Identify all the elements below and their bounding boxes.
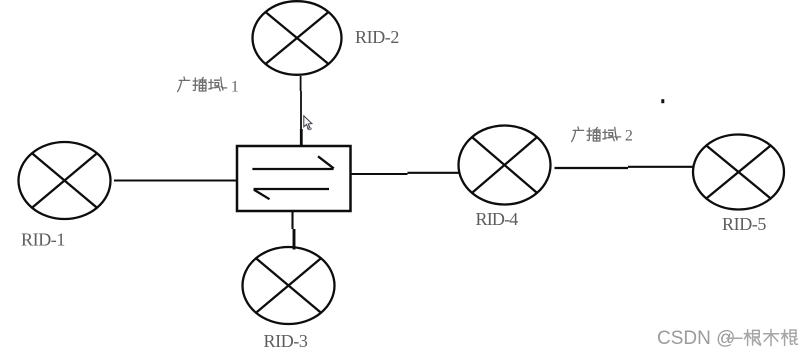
svg-text:RID-3: RID-3 bbox=[264, 331, 308, 351]
svg-text:RID-2: RID-2 bbox=[355, 27, 399, 47]
svg-text:RID-1: RID-1 bbox=[21, 230, 65, 250]
svg-text:-1: -1 bbox=[223, 79, 242, 96]
svg-text:-2: -2 bbox=[617, 128, 636, 145]
svg-text:RID-5: RID-5 bbox=[722, 214, 766, 234]
svg-text:RID-4: RID-4 bbox=[476, 209, 519, 229]
svg-text:CSDN @: CSDN @ bbox=[657, 328, 735, 349]
